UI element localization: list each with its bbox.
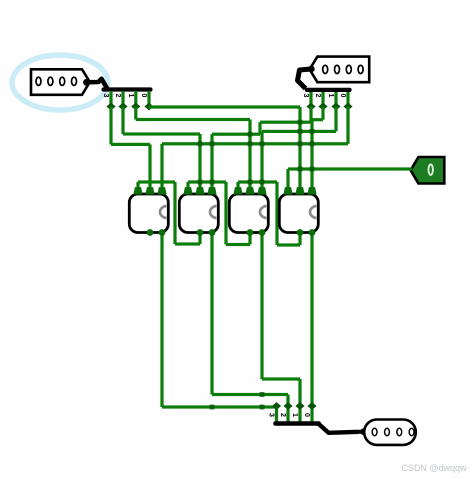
- splitter SP2 stem: [298, 69, 312, 89]
- wire A3 leg extension: [109, 107, 112, 145]
- label pin S value: [372, 428, 377, 435]
- wire C1 from U2 cout: [198, 233, 201, 245]
- wire A1 drop to U3: [248, 120, 251, 195]
- wire SP1 leg 0: [147, 91, 150, 107]
- junction SP1 leg 3 end: [106, 103, 115, 111]
- wire B0 leg extension: [346, 107, 349, 144]
- wire S1 from U3: [260, 233, 263, 380]
- output pin S (4-bit, value 0000): [364, 420, 416, 445]
- wire SP3 leg 2: [286, 395, 289, 422]
- wire B2 horizontal: [312, 118, 323, 121]
- wire A1 leg extension: [134, 107, 137, 120]
- junction SP3 leg 2 end: [283, 402, 292, 410]
- wire SP2 leg 0: [346, 92, 349, 107]
- wire S3 from U1: [160, 233, 163, 408]
- wire S2 horizontal: [212, 393, 288, 396]
- wire S2 from U2: [210, 233, 213, 395]
- pin U2 a (top middle): [195, 187, 204, 194]
- svg-text:3: 3: [268, 413, 275, 417]
- input pin A (4-bit, value 0000): [31, 69, 90, 95]
- wire A2 drop to U2: [198, 134, 201, 194]
- U3 facing notch: [260, 206, 267, 218]
- pin U2 sum (bottom right): [209, 229, 216, 236]
- svg-text:1: 1: [327, 94, 334, 98]
- wire SP1 leg 2: [121, 91, 124, 107]
- label pin A value: [36, 77, 41, 85]
- U2 facing notch: [210, 206, 217, 218]
- svg-text:1: 1: [127, 94, 134, 98]
- wire A0 drop to U4: [298, 107, 301, 194]
- wire SP1 leg 3: [109, 91, 112, 107]
- svg-text:2: 2: [314, 94, 321, 98]
- wire S0 from U4: [310, 233, 313, 407]
- pin U4 b (top right): [307, 187, 316, 194]
- junction SP3 leg 1 end: [295, 402, 304, 410]
- pin U1 cout (bottom left): [147, 229, 154, 236]
- svg-text:3: 3: [102, 94, 109, 98]
- svg-text:0: 0: [303, 413, 310, 417]
- pin U2 cout (bottom left): [197, 229, 204, 236]
- pin U1 sum (bottom right): [159, 229, 166, 236]
- junction SP2 leg 1 end: [331, 103, 340, 111]
- wire B0 horizontal: [162, 142, 348, 145]
- wire B2 drop to U4: [310, 120, 313, 194]
- wire SP1 leg 1: [134, 91, 137, 107]
- wire B3 drop to U2: [210, 134, 213, 194]
- pin U3 cout (bottom left): [247, 229, 254, 236]
- wire C2 from U3 cout: [248, 233, 251, 245]
- pin U4 cin (top left): [283, 187, 292, 194]
- U1 facing notch: [160, 206, 167, 218]
- wire SP3 leg 1: [298, 379, 301, 422]
- wire C3 from U4 cout: [298, 233, 301, 246]
- splitter SP1 bar: [102, 87, 153, 91]
- wire A2 leg extension: [121, 107, 124, 135]
- wire C1 bottom: [175, 242, 200, 245]
- wire C3 drop to U3: [236, 182, 239, 194]
- wire C1 drop to U1: [136, 182, 139, 194]
- wire Cin from constant: [288, 167, 412, 170]
- wire S3 horizontal: [162, 405, 277, 408]
- U4 facing notch: [310, 206, 317, 218]
- pin B tip dot: [308, 66, 315, 73]
- junction SP1 leg 1 end: [131, 103, 140, 111]
- wire C3 riser: [275, 182, 278, 245]
- pin A tip dot: [83, 79, 90, 86]
- wire S1 horizontal: [262, 377, 300, 380]
- svg-text:0: 0: [339, 94, 346, 98]
- svg-text:0: 0: [140, 94, 147, 98]
- svg-text:1: 1: [291, 413, 298, 417]
- svg-text:2: 2: [279, 413, 286, 417]
- wire A0 horizontal: [149, 105, 300, 108]
- wire A3 horizontal: [111, 143, 150, 146]
- pin U2 b (top right): [207, 187, 216, 194]
- pin U3 sum (bottom right): [259, 229, 266, 236]
- wire B1 drop to U3: [260, 131, 263, 194]
- wire C1 top: [138, 180, 175, 183]
- wire B1 horizontal: [262, 130, 336, 133]
- splitter SP1 stem: [87, 79, 109, 90]
- junction SP2 leg 0 end: [343, 103, 352, 111]
- splitter SP2 bar: [305, 88, 352, 92]
- wire C2 riser: [224, 182, 227, 245]
- pin U1 cin (top left): [133, 187, 142, 194]
- full adder U2: [179, 194, 218, 233]
- junction SP2 leg 2 end: [318, 103, 327, 111]
- pin U2 cin (top left): [183, 187, 192, 194]
- pin U3 b (top right): [257, 187, 266, 194]
- wire C1 riser: [173, 182, 176, 244]
- svg-text:2: 2: [114, 94, 121, 98]
- full adder U1: [129, 194, 168, 233]
- wire B3 step2 horizontal: [212, 133, 260, 136]
- wire A3 drop to U1: [148, 144, 151, 194]
- wire A2 horizontal: [123, 132, 200, 135]
- junction SP1 leg 2 end: [118, 103, 127, 111]
- wire SP2 leg 3: [309, 92, 312, 107]
- wire crossing shadows: [298, 120, 303, 125]
- input pin B (4-bit, value 0000): [310, 57, 370, 83]
- pin U4 a (top middle): [295, 187, 304, 194]
- junction SP3 leg 3 end: [272, 402, 281, 410]
- wire B0 drop to U1: [160, 144, 163, 194]
- pin U1 b (top right): [157, 187, 166, 194]
- wire Cin drop to U4: [286, 169, 289, 194]
- wire C2 drop to U2: [186, 182, 189, 194]
- junction SP3 leg 0 end: [307, 402, 316, 410]
- output pin S tip nub: [357, 427, 365, 436]
- junction SP2 leg 3 end: [306, 103, 315, 111]
- wire B3 step riser: [258, 122, 261, 134]
- wire B3 leg extension: [309, 107, 312, 123]
- full adder U3: [229, 194, 268, 233]
- junction SP1 leg 0 end: [144, 103, 153, 111]
- wire SP2 leg 1: [334, 92, 337, 107]
- splitter SP3 stem: [319, 424, 360, 433]
- pin U1 a (top middle): [145, 187, 154, 194]
- svg-text:CSDN @dwqqw: CSDN @dwqqw: [401, 463, 467, 473]
- wire B1 leg extension: [334, 107, 337, 132]
- wire SP2 leg 2: [321, 92, 324, 107]
- svg-text:3: 3: [302, 94, 309, 98]
- wire SP3 leg 3: [275, 406, 278, 422]
- wire C2 top: [188, 180, 226, 183]
- wire A1 horizontal: [136, 118, 250, 121]
- wire B3 step1 horizontal: [260, 121, 311, 124]
- pin U3 a (top middle): [245, 187, 254, 194]
- pin U4 cout (bottom left): [297, 229, 304, 236]
- full adder U4: [279, 194, 318, 233]
- splitter SP3 bar: [273, 421, 321, 425]
- wire C2 bottom: [226, 243, 250, 246]
- wire C3 top: [238, 180, 277, 183]
- highlight halo around input A: [12, 55, 108, 110]
- label pin B value: [323, 65, 328, 73]
- wire SP3 leg 0: [310, 406, 313, 422]
- wire B2 leg extension: [321, 107, 324, 120]
- pin U3 cin (top left): [233, 187, 242, 194]
- wire C3 bottom: [277, 243, 300, 246]
- input pin Cin (value 0): [411, 157, 445, 184]
- pin U4 sum (bottom right): [309, 229, 316, 236]
